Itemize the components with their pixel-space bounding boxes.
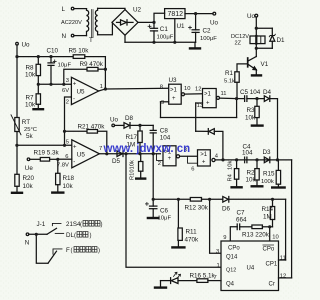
svg-text:C6: C6 — [160, 208, 169, 215]
svg-text:10k: 10k — [63, 183, 74, 190]
svg-text:(: ( — [74, 233, 76, 239]
svg-text:10: 10 — [272, 235, 278, 241]
svg-text:Uo: Uo — [110, 117, 119, 124]
svg-text:2Z: 2Z — [235, 41, 242, 47]
svg-text:U1: U1 — [177, 23, 186, 30]
svg-text:R2: R2 — [247, 170, 256, 177]
svg-text:100k: 100k — [261, 179, 274, 185]
svg-text:R20: R20 — [23, 175, 35, 182]
svg-text:7.8V: 7.8V — [57, 162, 69, 168]
svg-text:+: + — [172, 96, 176, 102]
svg-text:RT: RT — [22, 119, 30, 126]
svg-text:1: 1 — [217, 263, 220, 269]
svg-text:9: 9 — [223, 235, 226, 241]
svg-text:U5: U5 — [77, 89, 86, 96]
svg-text:Q14: Q14 — [226, 255, 238, 261]
svg-text:AC220V: AC220V — [61, 20, 82, 26]
svg-text:C8: C8 — [160, 128, 169, 135]
svg-text:R14: R14 — [262, 206, 274, 213]
svg-text:6: 6 — [191, 166, 194, 172]
svg-text:100μF: 100μF — [157, 35, 174, 41]
svg-text:-: - — [73, 160, 75, 166]
svg-text:Q4: Q4 — [226, 282, 235, 288]
svg-text:+: + — [202, 159, 206, 165]
svg-text:R16 5.1k: R16 5.1k — [190, 273, 216, 280]
svg-text:R12 30k: R12 30k — [185, 205, 209, 212]
svg-text:10k: 10k — [245, 115, 256, 122]
svg-text:Ue: Ue — [25, 165, 34, 172]
svg-text:N: N — [25, 240, 30, 247]
svg-text:): ) — [101, 222, 103, 228]
svg-text:R7: R7 — [26, 95, 35, 102]
svg-text:10k: 10k — [25, 72, 36, 79]
svg-text:10: 10 — [184, 86, 190, 92]
svg-text:10μF: 10μF — [58, 63, 72, 69]
svg-text:R5 10k: R5 10k — [69, 48, 90, 55]
svg-text:+: + — [206, 101, 210, 107]
svg-text:U3: U3 — [169, 77, 178, 84]
svg-text:(: ( — [80, 222, 82, 228]
svg-text:): ) — [90, 233, 92, 239]
svg-text:R3: R3 — [247, 107, 256, 114]
svg-text:5.1k: 5.1k — [224, 79, 235, 85]
svg-text:R8: R8 — [26, 65, 35, 72]
svg-text:T: T — [89, 37, 93, 44]
svg-text:>1: >1 — [170, 88, 178, 94]
svg-text:R1: R1 — [225, 70, 234, 77]
svg-text:>1: >1 — [204, 92, 212, 98]
svg-text:U5: U5 — [77, 152, 86, 159]
svg-text:104: 104 — [242, 150, 253, 157]
svg-text:DC12V: DC12V — [231, 34, 249, 40]
svg-text:CP1: CP1 — [266, 262, 278, 268]
svg-text:3: 3 — [66, 78, 69, 84]
svg-text:>1: >1 — [200, 152, 208, 158]
svg-text:D4: D4 — [263, 89, 272, 96]
svg-text:F: F — [66, 247, 70, 254]
svg-text:11: 11 — [221, 91, 227, 97]
svg-text:7812: 7812 — [168, 11, 184, 18]
svg-text:R21 470k: R21 470k — [78, 124, 106, 131]
svg-text:Q12: Q12 — [226, 268, 236, 274]
svg-text:D5: D5 — [112, 158, 121, 165]
svg-text:D6: D6 — [222, 206, 231, 213]
svg-text:R9 470k: R9 470k — [80, 61, 104, 68]
svg-text:470k: 470k — [185, 237, 200, 244]
svg-text:D1: D1 — [277, 37, 286, 44]
svg-text:U2: U2 — [133, 7, 142, 14]
svg-text:V1: V1 — [261, 61, 269, 68]
svg-text:6V: 6V — [62, 88, 69, 94]
svg-text:R17: R17 — [126, 134, 138, 141]
svg-text:10k: 10k — [130, 160, 136, 169]
svg-text:10μF: 10μF — [158, 216, 172, 222]
svg-text:R11: R11 — [186, 229, 198, 236]
svg-text:Cr: Cr — [269, 282, 275, 288]
svg-text:1: 1 — [100, 84, 103, 90]
svg-text:11: 11 — [280, 255, 286, 261]
svg-text:10k: 10k — [228, 161, 234, 170]
svg-text:R10: R10 — [130, 169, 136, 180]
svg-text:2: 2 — [66, 100, 69, 106]
svg-text:C10: C10 — [47, 48, 59, 55]
svg-text:1M: 1M — [263, 214, 272, 221]
svg-text:10k: 10k — [25, 102, 36, 109]
svg-text:104: 104 — [160, 135, 171, 142]
svg-text:100μF: 100μF — [200, 36, 217, 42]
svg-text:R19 5.3k: R19 5.3k — [34, 150, 60, 157]
svg-text:-: - — [73, 96, 75, 102]
svg-text:Uo: Uo — [247, 13, 256, 20]
svg-text:9: 9 — [161, 100, 164, 106]
svg-text:+: + — [73, 145, 77, 151]
svg-text:CPo: CPo — [228, 246, 240, 252]
svg-text:L: L — [62, 6, 66, 13]
svg-text:J-1: J-1 — [37, 221, 46, 228]
svg-text:R13 220k: R13 220k — [242, 231, 270, 238]
svg-text:Uo: Uo — [210, 20, 219, 27]
svg-text:R18: R18 — [63, 175, 75, 182]
svg-text:D8: D8 — [125, 115, 134, 122]
svg-text:10k: 10k — [23, 183, 34, 190]
svg-text:13: 13 — [197, 103, 203, 109]
svg-text:2: 2 — [158, 161, 161, 167]
svg-text:12: 12 — [280, 273, 286, 279]
svg-text:664: 664 — [236, 216, 247, 223]
svg-text:5k: 5k — [26, 133, 34, 140]
svg-text:8: 8 — [160, 85, 163, 91]
svg-text:U4: U4 — [247, 266, 255, 272]
svg-text:5: 5 — [66, 140, 69, 146]
svg-text:www. jdwxw. cn: www. jdwxw. cn — [103, 143, 191, 155]
svg-text:N: N — [62, 33, 67, 40]
svg-text:21S4: 21S4 — [66, 221, 81, 228]
svg-text:7: 7 — [99, 146, 102, 152]
svg-text:(: ( — [71, 248, 73, 254]
svg-text:CPo: CPo — [263, 247, 275, 253]
svg-text:12: 12 — [195, 87, 201, 93]
svg-text:D3: D3 — [263, 149, 272, 156]
svg-text:R15: R15 — [263, 171, 275, 178]
svg-text:3: 3 — [216, 249, 219, 255]
svg-text:C5 104: C5 104 — [240, 89, 261, 96]
svg-text:R4: R4 — [228, 173, 234, 181]
svg-text:C1: C1 — [160, 26, 169, 33]
svg-text:+: + — [73, 82, 77, 88]
svg-text:C2: C2 — [203, 28, 212, 35]
svg-text:Uo: Uo — [22, 42, 31, 49]
svg-text:+: + — [168, 156, 172, 162]
svg-text:10k: 10k — [246, 177, 257, 184]
svg-text:6: 6 — [65, 154, 68, 160]
svg-text:): ) — [98, 248, 100, 254]
